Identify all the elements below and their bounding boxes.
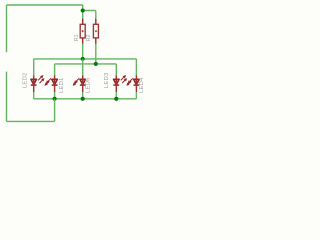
wire: R1 top feed vertical <box>82 5 84 19</box>
wire: lower net horizontal (R2 net) <box>55 63 117 65</box>
wire: branch to R2 horizontal <box>83 10 96 12</box>
wire: LED4 cathode drop <box>135 92 137 99</box>
wire: top border horizontal (VCC) <box>7 4 83 6</box>
wire: LED2 cathode drop <box>33 92 35 99</box>
LED5 (diode + arrows left, mirrored) <box>73 76 85 93</box>
resistor R2 top pin <box>95 19 97 25</box>
wire: LED2 anode drop <box>33 59 35 76</box>
wire: left border upper vertical <box>6 5 8 52</box>
wire: R2 to lower net <box>95 44 97 64</box>
wire: LED1 anode drop <box>54 64 56 76</box>
svg-text:LED2: LED2 <box>23 73 29 89</box>
resistor R1 bottom pin <box>82 38 84 44</box>
resistor R1 body <box>80 24 85 38</box>
svg-text:LED3: LED3 <box>104 72 110 88</box>
svg-text:R2: R2 <box>86 34 92 41</box>
LED4 (diode + arrows left, mirrored) <box>127 76 139 93</box>
resistor R2 bottom pin <box>95 38 97 44</box>
wire: upper net horizontal (R1 net) <box>34 58 137 60</box>
junction: R2/lower net <box>94 62 98 66</box>
LED3 (diode + arrows right) <box>113 76 126 93</box>
wire: R2 top feed vertical <box>95 11 97 20</box>
svg-text:LED4: LED4 <box>139 77 145 93</box>
junction: LED5/bottom net <box>81 97 85 101</box>
wire: left border lower vertical <box>6 72 8 122</box>
resistor R2 value mark <box>95 30 97 32</box>
resistor R2 body <box>93 24 98 38</box>
wire: LED3 anode drop <box>115 64 117 76</box>
resistor R1 top pin <box>82 19 84 25</box>
junction: branch node <box>81 8 85 12</box>
wire: bottom cathode net horizontal <box>34 98 137 100</box>
wire: LED5 cathode drop <box>82 92 84 99</box>
svg-text:LED5: LED5 <box>86 77 92 93</box>
junction: LED3/bottom net <box>114 97 118 101</box>
wire: LED3 cathode drop <box>115 92 117 99</box>
svg-text:LED1: LED1 <box>59 77 65 93</box>
wire: bottom net to GND border <box>54 99 56 122</box>
wire: bottom border horizontal (GND) <box>7 120 55 122</box>
wire: R1 to upper net <box>82 44 84 59</box>
resistor R1 value mark <box>82 30 84 32</box>
wire: LED1 cathode drop <box>54 92 56 99</box>
junction: R1/upper net <box>81 57 85 61</box>
junction: LED1/bottom net <box>53 97 57 101</box>
LED1 (diode + arrows left, mirrored) <box>45 76 57 93</box>
svg-text:R1: R1 <box>74 34 80 41</box>
wire: LED4 anode drop <box>135 59 137 76</box>
wire: LED5 anode drop <box>82 59 84 76</box>
LED2 (diode + arrows right) <box>31 76 44 93</box>
